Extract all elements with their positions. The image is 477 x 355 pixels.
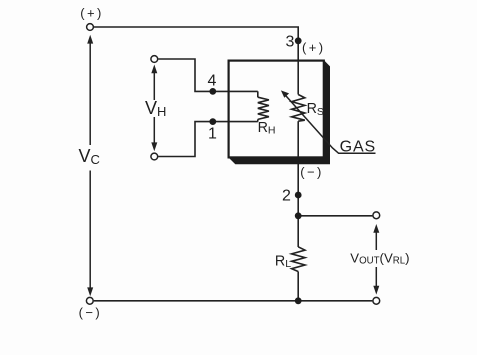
svg-text:(−): (−) [79, 305, 102, 320]
svg-text:VOUT(VRL): VOUT(VRL) [350, 250, 409, 266]
svg-text:RL: RL [275, 253, 291, 270]
svg-text:(+): (+) [302, 40, 325, 55]
svg-text:1: 1 [208, 126, 217, 143]
svg-text:GAS: GAS [340, 139, 377, 156]
svg-text:(−): (−) [300, 165, 323, 180]
svg-text:VC: VC [79, 146, 100, 167]
svg-text:VH: VH [145, 98, 166, 119]
svg-text:2: 2 [282, 187, 291, 204]
svg-text:4: 4 [208, 72, 217, 89]
svg-text:(+): (+) [80, 6, 103, 21]
svg-text:3: 3 [286, 33, 295, 50]
